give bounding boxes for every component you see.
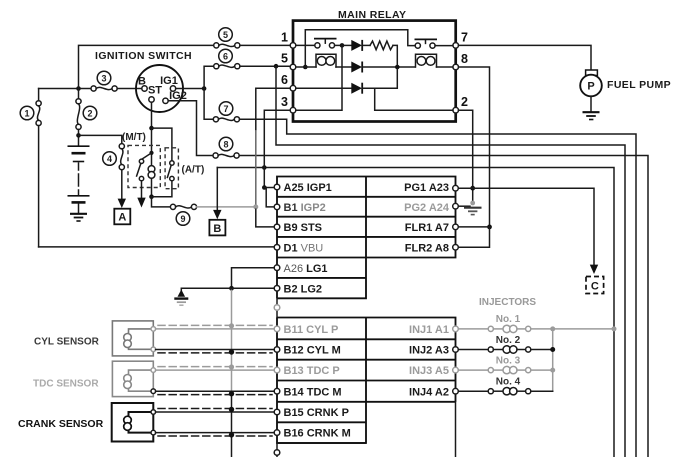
svg-text:B13 TDC P: B13 TDC P — [284, 365, 340, 377]
label circled 4 — [103, 152, 117, 166]
svg-text:No. 2: No. 2 — [496, 335, 521, 346]
svg-text:3: 3 — [281, 95, 288, 109]
connector box A — [114, 209, 130, 225]
svg-text:CRANK SENSOR: CRANK SENSOR — [18, 418, 104, 430]
terminal FLR1 A7 — [453, 224, 459, 230]
svg-text:INJ1 A1: INJ1 A1 — [409, 324, 449, 336]
wire: A23 terminal to junction and C drop — [458, 188, 594, 265]
wire: junction to A/T switch bottom — [152, 181, 172, 197]
wire: pin 8 down to FLR1 A7 — [459, 67, 490, 227]
wire: fuse1 down to D1 VBU line — [38, 126, 40, 247]
relay coil 2 — [416, 54, 437, 67]
terminal ST — [149, 97, 154, 102]
ECU lower connector box — [277, 318, 456, 444]
pin 8 — [453, 64, 459, 70]
wire: pin3 internal riser — [296, 45, 342, 110]
battery — [68, 145, 90, 147]
svg-text:FUEL PUMP: FUEL PUMP — [607, 79, 671, 91]
svg-text:INJ3 A5: INJ3 A5 — [409, 365, 449, 377]
node junction above battery — [76, 133, 81, 138]
svg-text:CYL SENSOR: CYL SENSOR — [34, 337, 100, 348]
node shield tap B13 — [229, 364, 234, 369]
relay box — [293, 21, 456, 122]
wire: battery bus top-left horizontal — [39, 88, 77, 90]
label circled 2 — [83, 106, 97, 120]
fuse 4 — [119, 144, 124, 149]
terminal B14 — [274, 388, 280, 394]
wire: fuse 5 to relay pin 1 — [240, 44, 290, 46]
svg-text:TDC SENSOR: TDC SENSOR — [33, 379, 99, 390]
wire: battery junction to fuse 4 — [79, 135, 122, 143]
wire: LG shield bus vertical upper — [231, 290, 233, 392]
fuse 6 — [214, 64, 219, 69]
relay inner top link — [305, 30, 415, 67]
label circled 1 — [20, 106, 34, 120]
wire: fuse 6 to relay pin 5 — [240, 65, 290, 67]
ECU lower right edge continuation — [455, 402, 457, 457]
fuse 2 — [76, 99, 81, 104]
terminal B11 — [274, 326, 280, 332]
wire: pin6 to diode D3 — [296, 87, 352, 89]
fuse 8 — [213, 153, 218, 158]
wire: relay pin 3 column down to A25 — [264, 110, 290, 187]
node A24 ground tap — [470, 201, 475, 206]
terminal A26 — [274, 265, 280, 271]
wire: junction drop to fuse 7 — [204, 89, 213, 120]
svg-text:6: 6 — [281, 73, 288, 87]
wire: CRNK P shield dash — [158, 408, 272, 410]
wire: junction to A25 terminal — [264, 187, 274, 189]
wire: pin 2 down to PG1 A23 — [459, 110, 473, 204]
svg-text:FLR1 A7: FLR1 A7 — [405, 222, 449, 234]
injector No.2 — [458, 346, 552, 353]
wire: TDC P shield dash — [158, 366, 272, 368]
wire: D3 output up to coil2 node — [362, 69, 397, 88]
svg-text:INJ2 A3: INJ2 A3 — [409, 345, 449, 357]
terminal B12 — [274, 347, 280, 353]
wire: junction to circuit breaker 3 — [81, 88, 91, 90]
svg-text:1: 1 — [281, 31, 288, 45]
wire: injector common vertical — [552, 329, 554, 391]
svg-text:D1 VBU: D1 VBU — [284, 242, 324, 254]
wire: resistor to coil2 node — [393, 45, 397, 67]
svg-text:IGNITION SWITCH: IGNITION SWITCH — [95, 50, 192, 62]
svg-text:3: 3 — [101, 73, 106, 83]
wire: B connector drop — [216, 168, 218, 212]
wire: D1 VBU line from fuse 1 — [39, 246, 274, 248]
svg-text:B14 TDC M: B14 TDC M — [284, 386, 342, 398]
wire: pin1 to contact 1 — [296, 44, 315, 46]
pin 7 — [453, 43, 459, 49]
injector No.3 — [458, 366, 552, 373]
wire: TDC M — [156, 390, 275, 392]
TDC sensor — [112, 361, 153, 396]
wire: coil1 to diode D2 — [336, 66, 351, 68]
node IG1 junction — [202, 86, 207, 91]
node gray junction on B9 column — [253, 204, 258, 209]
terminal B9 — [274, 224, 280, 230]
ECU upper connector box — [277, 177, 456, 299]
svg-text:B: B — [213, 223, 221, 235]
solenoid coil — [148, 166, 155, 173]
wire: IG2 to fuse 8 — [168, 101, 213, 156]
svg-text:A25 IGP1: A25 IGP1 — [284, 182, 332, 194]
wire: CYL M shield dash — [158, 352, 272, 354]
svg-text:B11 CYL P: B11 CYL P — [284, 324, 339, 336]
arrowhead M/T down — [137, 198, 145, 208]
svg-text:A: A — [118, 212, 126, 224]
svg-text:PG2 A24: PG2 A24 — [404, 202, 450, 214]
resistor — [370, 41, 393, 50]
svg-text:P: P — [587, 81, 594, 93]
ground LG — [178, 290, 186, 297]
svg-text:B9 STS: B9 STS — [284, 222, 323, 234]
terminal spare lower — [274, 450, 280, 456]
wire: CYL M — [156, 349, 275, 351]
arrowhead to B — [213, 210, 221, 219]
node No.3 tie — [550, 368, 555, 373]
arrowhead to A — [118, 199, 126, 208]
terminal IG1 — [170, 86, 175, 91]
wire: TDC P — [156, 369, 275, 371]
node shield tap B12 — [229, 349, 234, 354]
node pin5 inner junction — [303, 65, 308, 70]
pin 2 — [453, 107, 459, 113]
svg-text:5: 5 — [281, 52, 288, 66]
wire: injector common tie to L4 — [553, 328, 614, 330]
svg-text:ST: ST — [148, 85, 162, 97]
node No.2 tie — [550, 347, 555, 352]
dashed box A/T — [165, 148, 178, 189]
node solenoid top tap — [149, 151, 153, 155]
arrowhead to C — [590, 265, 598, 274]
wire: ST column to solenoid coil — [151, 128, 153, 164]
diode D1 — [342, 44, 351, 46]
svg-text:5: 5 — [223, 30, 228, 40]
switch A/T — [170, 161, 174, 165]
wire: CYL P — [156, 328, 275, 330]
node shield tap B14 — [229, 391, 234, 396]
terminal INJ3 — [453, 367, 459, 373]
svg-text:IG1: IG1 — [160, 75, 178, 87]
wire: CRNK P — [156, 411, 275, 413]
terminal B1 — [274, 204, 280, 210]
node shield tap B16 — [229, 432, 234, 437]
svg-text:MAIN RELAY: MAIN RELAY — [338, 9, 406, 21]
diode D2 — [351, 62, 362, 73]
dashed box M/T starter switch — [128, 145, 160, 187]
svg-text:2: 2 — [461, 95, 468, 109]
svg-text:B16 CRNK M: B16 CRNK M — [284, 428, 351, 440]
connector box C — [586, 277, 604, 294]
ECU edge link between boxes — [276, 298, 278, 317]
svg-text:B12 CYL M: B12 CYL M — [284, 345, 341, 357]
relay contact 2 — [415, 43, 420, 48]
terminal PG1 A23 — [453, 185, 459, 191]
wire: coil bottom to junction — [151, 179, 153, 196]
node PG1 A23 junction — [470, 186, 475, 191]
svg-text:6: 6 — [223, 51, 228, 61]
wire: L4 wrap line B-connector pin3 feed to injectors — [217, 168, 614, 457]
fuse 1 — [36, 101, 41, 106]
node tie to L4 — [612, 326, 617, 331]
terminal INJ1 — [453, 326, 459, 332]
wire: D3 line branch down to pin 2 — [375, 88, 453, 110]
switch M/T — [139, 159, 143, 163]
pin 3 — [290, 107, 296, 113]
injector No.1 — [458, 325, 552, 332]
svg-text:A26 LG1: A26 LG1 — [284, 263, 328, 275]
node L4 junction with pin3 column — [262, 165, 267, 170]
wire: breaker 3 to ignition switch B — [117, 88, 142, 90]
injector No.4 — [458, 388, 552, 395]
fuel pump — [586, 70, 598, 76]
wire: L3 wrap line fuse 8 to right and bottom — [239, 156, 648, 457]
wire: L2 wrap line pin5 junction down right and to bottom — [276, 66, 625, 457]
CYL sensor — [112, 321, 153, 356]
wire: riser to fuse 5 feed — [79, 45, 214, 88]
svg-text:INJECTORS: INJECTORS — [479, 297, 536, 308]
ground fuel pump — [583, 111, 600, 113]
svg-text:B1 IGP2: B1 IGP2 — [284, 202, 326, 214]
terminal spare upper — [274, 305, 280, 311]
pin 6 — [290, 85, 296, 91]
wire: fuse 4 to arrow A — [121, 170, 123, 200]
terminal PG2 A24 — [453, 203, 459, 209]
terminal A25 — [274, 184, 280, 190]
wire: fuse2 to battery — [78, 130, 80, 147]
relay contact 1 — [315, 43, 320, 48]
svg-text:FLR2 A8: FLR2 A8 — [405, 242, 449, 254]
wire: ST drop — [151, 102, 153, 128]
terminal D1 — [274, 245, 280, 251]
node relay row1 junction — [340, 43, 345, 48]
wire: FLR1 A7 to junction — [458, 226, 489, 228]
fuse 5 — [214, 43, 219, 48]
ground battery — [70, 213, 87, 215]
svg-text:4: 4 — [107, 154, 112, 164]
node LG junction — [229, 286, 234, 291]
wire: fuse 9 output (gray) to B9 column — [197, 206, 253, 208]
wire: PG2 A24 to ground — [458, 205, 470, 207]
svg-text:B15 CRNK P: B15 CRNK P — [284, 407, 349, 419]
wire: gray junction to B9 terminal — [256, 209, 274, 227]
node shield tap B15 — [229, 407, 234, 412]
node coil2 feed junction — [395, 65, 400, 70]
wire: junction down to FLR2 A8 — [458, 227, 489, 247]
svg-text:(M/T): (M/T) — [122, 132, 146, 143]
diode D3 — [351, 83, 362, 94]
wire: CYL P shield dash — [158, 324, 272, 326]
wire: pump to ground — [590, 96, 592, 111]
svg-text:No. 3: No. 3 — [496, 355, 521, 366]
fuse 7 — [213, 117, 218, 122]
node battery bus junction — [76, 86, 81, 91]
node ST junction — [149, 126, 154, 131]
svg-text:8: 8 — [461, 52, 468, 66]
CRANK sensor — [112, 403, 154, 442]
pin 1 — [290, 43, 296, 49]
node pin5 branch junction — [274, 64, 279, 69]
svg-text:INJ4 A2: INJ4 A2 — [409, 386, 449, 398]
svg-text:No. 1: No. 1 — [496, 314, 521, 325]
svg-text:8: 8 — [223, 139, 228, 149]
terminal IG2 — [163, 98, 168, 103]
connector box B — [209, 220, 225, 236]
wire: pin5 to coil 1 — [296, 66, 316, 68]
terminal INJ2 — [453, 347, 459, 353]
wire: LG shield bus vertical lower — [231, 392, 233, 457]
terminal B13 — [274, 367, 280, 373]
wire: junction riser to fuse 6 — [204, 66, 214, 88]
wire: left drop to fuse 1 — [38, 89, 40, 101]
wire: B2 LG2 to ground — [181, 288, 274, 295]
wire: CRNK M shield dash — [158, 435, 272, 437]
pin 5 — [290, 64, 296, 70]
wire: pin 7 to fuel pump — [459, 45, 592, 70]
node tie top — [550, 326, 555, 331]
terminal B15 — [274, 409, 280, 415]
svg-text:(A/T): (A/T) — [182, 165, 205, 176]
terminal B — [142, 86, 147, 91]
wire: drop to fuse 2 — [78, 89, 80, 99]
svg-text:7: 7 — [223, 104, 228, 114]
wire: ST branch to A/T switch — [152, 128, 172, 161]
svg-text:B: B — [138, 76, 146, 88]
ECU lower left edge continuation — [276, 443, 278, 457]
svg-text:2: 2 — [87, 108, 92, 118]
node shield tap B11 — [229, 323, 234, 328]
wire: junction down to fuse 9 — [152, 197, 171, 207]
wire: IG1 to relay fuse junction — [176, 88, 204, 90]
svg-text:1: 1 — [24, 108, 29, 118]
terminal B2 — [274, 286, 280, 292]
wire: contact1 to diode node — [335, 44, 342, 46]
svg-text:9: 9 — [180, 214, 185, 224]
svg-text:B2 LG2: B2 LG2 — [284, 283, 323, 295]
wire: L1 wrap line fuse 7 under relay to bottom — [240, 119, 637, 457]
node FLR1 junction — [487, 225, 492, 230]
relay coil 1 — [316, 54, 336, 67]
terminal B16 — [274, 430, 280, 436]
node coil bottom junction — [149, 194, 154, 199]
wire: CRNK M — [156, 432, 275, 434]
svg-text:C: C — [591, 281, 599, 293]
wire: M/T switch to arrow — [141, 181, 143, 199]
wire: hook A25 junction to B1 IGP2 — [266, 188, 274, 207]
terminal INJ4 — [453, 388, 459, 394]
svg-text:7: 7 — [461, 31, 468, 45]
terminal FLR2 A8 — [453, 245, 459, 251]
wire: tap to M/T switch — [142, 153, 152, 159]
node A25 junction — [262, 185, 267, 190]
circuit breaker 3 — [91, 86, 96, 91]
svg-text:No. 4: No. 4 — [496, 377, 521, 388]
ground PG ECU — [464, 207, 482, 209]
svg-text:PG1 A23: PG1 A23 — [404, 182, 449, 194]
wire: TDC M shield dash — [158, 394, 272, 396]
fuse 9 — [170, 204, 175, 209]
wire: A26 LG1 to LG bus — [232, 268, 275, 289]
wire: relay pin 6 column down to B9 STS — [256, 88, 290, 130]
